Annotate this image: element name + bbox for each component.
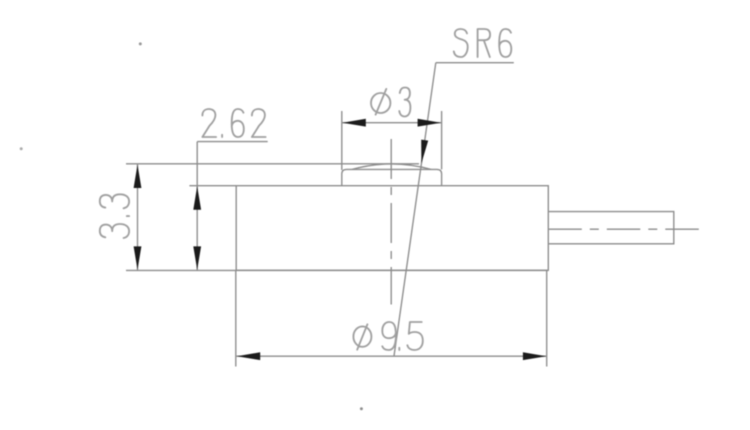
dimension text dia 9.5	[353, 322, 422, 350]
body-top extension line	[189, 185, 236, 187]
dimension text SR6	[454, 29, 512, 57]
arrow dia9.5 right	[523, 352, 546, 360]
dia9.5 dimension line	[236, 355, 546, 357]
body outline	[236, 186, 548, 271]
dia9.5 left extension line	[235, 271, 237, 367]
SR6 leader underline	[436, 62, 514, 64]
dimension line 3.3	[137, 164, 139, 270]
cable centerline	[548, 228, 700, 230]
arrow SR6 leader (down onto dome)	[421, 140, 428, 164]
arrow dia9.5 left	[237, 352, 260, 360]
arrow 2.62 bottom (down)	[193, 246, 201, 269]
arrow 3.3 top (up)	[134, 165, 142, 188]
dimension text 2.62	[202, 109, 265, 137]
dimension line 2.62 with leader drop	[196, 142, 198, 271]
dimension text 3.3 (rotated)	[100, 194, 129, 238]
SR6 leader line	[394, 63, 436, 356]
speckle dot top-left	[139, 42, 142, 45]
arrow 3.3 bottom (down)	[134, 246, 142, 269]
top extension line (overall height)	[126, 163, 419, 165]
arrow 2.62 top (up)	[193, 186, 201, 209]
arrow dia3 right	[418, 119, 441, 127]
speckle dot bottom-center	[360, 407, 363, 410]
dia3 right extension line	[441, 111, 443, 169]
dimension text dia 3	[371, 88, 410, 117]
cable	[548, 212, 674, 244]
button spherical top arc SR6	[352, 164, 431, 169]
dia3 left extension line	[341, 111, 343, 170]
vertical centerline	[390, 139, 392, 305]
arrow dia3 left	[342, 119, 365, 127]
bottom extension line	[126, 269, 548, 271]
2.62 leader underline	[197, 141, 268, 143]
speckle dot left	[20, 147, 23, 150]
dia9.5 right extension line	[546, 271, 548, 367]
button collar	[342, 169, 442, 185]
dia3 dimension line	[342, 122, 442, 124]
